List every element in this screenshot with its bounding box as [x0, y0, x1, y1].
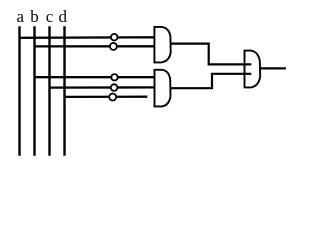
wire: U2 output net to U3 lower input	[171, 74, 252, 88]
inverter bubble on U1 input 1	[111, 34, 118, 41]
wire: d to U2 input 3 (stops short of gate)	[65, 96, 148, 99]
wire: c to U2 input 2	[50, 86, 155, 88]
wire: input rail a	[18, 26, 20, 156]
svg-text:a: a	[17, 7, 25, 26]
wire: b to U2 input 1	[35, 76, 155, 78]
wire: a to U1 input 1	[20, 36, 155, 39]
inverter bubble on U2 input 1	[111, 74, 117, 80]
and-gate U3 body (output gate)	[245, 51, 261, 88]
wire: U3 output	[260, 67, 286, 69]
inverter bubble on U1 input 2	[110, 43, 117, 50]
wire: input rail b	[33, 26, 35, 156]
inverter bubble on U2 input 2	[111, 84, 118, 91]
wire: b to U1 input 2	[35, 45, 155, 47]
wire: input rail c	[48, 26, 50, 156]
and-gate U1 body	[154, 27, 170, 63]
svg-text:b: b	[30, 7, 39, 26]
and-gate U2 body	[155, 70, 171, 107]
inverter bubble on U2 input 3	[109, 94, 116, 101]
svg-text:c: c	[46, 7, 54, 26]
wire: input rail d	[63, 26, 65, 156]
wire: U1 output net to U3 upper input	[171, 44, 252, 65]
svg-text:d: d	[58, 7, 67, 26]
